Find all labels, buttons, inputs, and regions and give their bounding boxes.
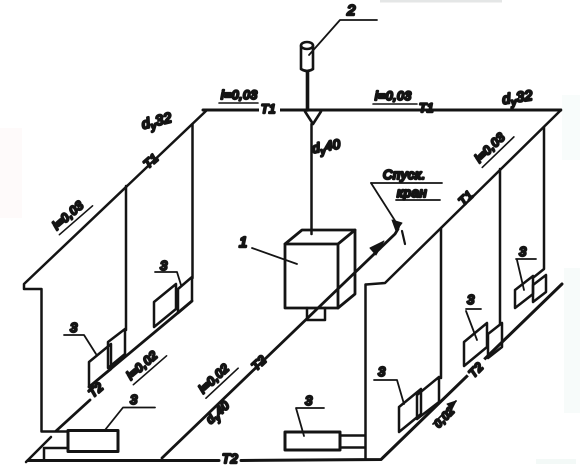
wire T2 chain L1 to L2 bbox=[89, 301, 192, 387]
boiler U1 front bbox=[285, 244, 338, 308]
svg-text:T1: T1 bbox=[141, 151, 162, 172]
wire radiator bottom-left return bbox=[44, 448, 68, 460]
svg-text:dy32: dy32 bbox=[501, 87, 534, 110]
label dy32 right bbox=[501, 87, 534, 110]
radiator R1 back bbox=[417, 377, 439, 419]
label dy40 center drain rotated bbox=[203, 398, 234, 428]
wire riser L1 bbox=[125, 186, 128, 330]
label T1 left wing rotated bbox=[141, 151, 162, 172]
wire riser L2 bbox=[191, 124, 194, 278]
wire T2 drain diagonal bbox=[162, 229, 398, 458]
svg-text:1: 1 bbox=[239, 234, 248, 251]
label dy40 center bbox=[311, 136, 342, 158]
radiator R3 front bbox=[515, 276, 533, 308]
radiator L2 front bbox=[154, 284, 176, 327]
wire riser R2 bbox=[499, 169, 502, 324]
svg-text:T1: T1 bbox=[419, 101, 434, 115]
radiator bottom-center bbox=[285, 432, 340, 450]
wire T1 right diagonal branch bbox=[366, 110, 561, 285]
radiator L2 back bbox=[178, 277, 192, 313]
svg-text:3: 3 bbox=[160, 258, 168, 273]
svg-text:0,02: 0,02 bbox=[432, 405, 457, 430]
radiator L1 back bbox=[108, 329, 125, 368]
label i=0,03 right wing rotated bbox=[471, 125, 514, 167]
wire riser R1 bbox=[440, 228, 443, 378]
boiler U1 right face bbox=[338, 230, 355, 308]
label i=0,02 center drain rotated bbox=[195, 356, 238, 398]
arrow 0,02 right wing bbox=[433, 401, 456, 424]
svg-text:T1: T1 bbox=[261, 102, 276, 116]
radiator R2 back bbox=[488, 323, 502, 358]
svg-text:dy32: dy32 bbox=[140, 109, 174, 135]
wire riser R3 bbox=[534, 127, 544, 277]
svg-text:3: 3 bbox=[305, 393, 313, 408]
svg-text:i=0,03: i=0,03 bbox=[375, 89, 412, 103]
wire dy40 drop pipe bbox=[310, 124, 313, 234]
svg-text:3: 3 bbox=[467, 292, 475, 307]
wire T2 chain below L1 bbox=[56, 400, 90, 431]
wire T1 left diagonal branch bbox=[24, 110, 207, 432]
radiator R3 back bbox=[533, 275, 546, 302]
label T2 center drain rotated bbox=[249, 353, 270, 374]
svg-text:3: 3 bbox=[70, 320, 78, 335]
svg-text:T1: T1 bbox=[456, 188, 477, 209]
leader spusk kran bbox=[371, 183, 399, 227]
label T2 right wing rotated bbox=[464, 356, 490, 382]
label dy32 left bbox=[140, 109, 174, 135]
wire T1 top main bbox=[203, 109, 561, 112]
radiator R1 front bbox=[399, 389, 421, 432]
svg-text:dy40: dy40 bbox=[203, 398, 234, 428]
svg-text:Спуск.: Спуск. bbox=[383, 167, 426, 182]
label T1 right wing rotated bbox=[456, 188, 477, 209]
radiator R2 front bbox=[464, 323, 487, 366]
air collector triangle bbox=[305, 112, 321, 125]
svg-text:3: 3 bbox=[378, 364, 386, 379]
svg-text:3: 3 bbox=[130, 392, 138, 407]
boiler U1 top face bbox=[285, 230, 355, 244]
wire T2 bottom main bbox=[28, 284, 562, 461]
wire radiator bottom-center stubs bbox=[340, 436, 365, 448]
drain cock tail bbox=[402, 231, 405, 244]
svg-text:2: 2 bbox=[346, 2, 356, 19]
leader label 1 bbox=[252, 248, 297, 264]
boiler pedestal bbox=[307, 308, 325, 320]
label T1 top-left bbox=[259, 103, 280, 114]
leader label 2 bbox=[309, 20, 377, 55]
wire bottom-left corner chamfer bbox=[26, 437, 51, 462]
label T2 left chain rotated bbox=[86, 380, 107, 401]
svg-text:3: 3 bbox=[519, 244, 527, 259]
svg-text:кран: кран bbox=[397, 185, 427, 200]
radiator L1 front bbox=[89, 344, 111, 387]
svg-text:dy40: dy40 bbox=[311, 136, 342, 158]
svg-text:i=0,03: i=0,03 bbox=[221, 88, 258, 102]
label i=0,03 left wing rotated bbox=[49, 194, 93, 235]
wire tank pipe bbox=[306, 72, 310, 110]
expansion tank C2 cylinder bbox=[301, 42, 313, 71]
label 0,02 right wing rotated bbox=[432, 405, 457, 430]
label i=0,02 left chain rotated bbox=[123, 344, 167, 385]
arrow on drain line bbox=[370, 241, 384, 255]
wire riser center (to bottom radiator) bbox=[364, 285, 367, 459]
radiator bottom-left bbox=[68, 431, 118, 452]
svg-text:T2: T2 bbox=[222, 451, 239, 466]
